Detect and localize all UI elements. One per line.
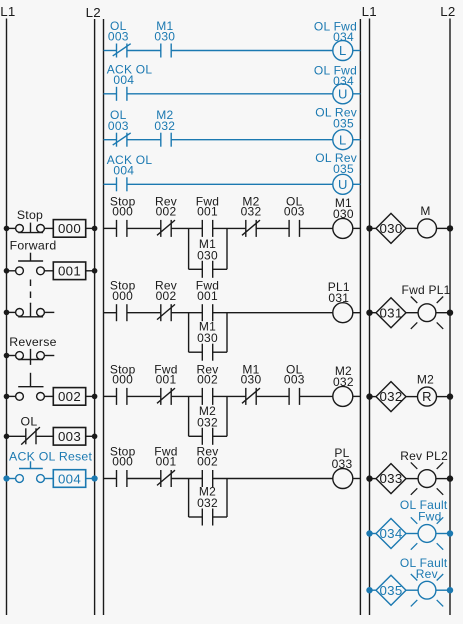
contact ACK OL 004 (NO) rung B2 (107, 62, 153, 101)
mechanical link Forward (dashed) (30, 280, 32, 305)
svg-text:001: 001 (197, 205, 218, 219)
output address 031 diamond and pilot light Fwd PL1 (366, 283, 453, 329)
svg-text:030: 030 (241, 373, 262, 387)
svg-text:L2: L2 (440, 4, 455, 19)
contact OL 003 (NC) rung B3 (108, 108, 131, 147)
rail L1 (output section left rail) (369, 19, 371, 616)
contact Fwd 001 (NC) rung 4 (154, 445, 177, 488)
contact M1 030 (NC) rung 3 (241, 362, 262, 405)
contact ACK OL 004 (NO) rung B4 (107, 153, 153, 192)
svg-text:032: 032 (380, 389, 403, 404)
junction dot Reverse row (4, 353, 10, 359)
contact M2 032 (NC) rung 1 (241, 194, 262, 237)
branch wires rung 2 (189, 313, 227, 353)
coil M1 030 rung 1 (333, 196, 354, 239)
svg-text:030: 030 (154, 30, 175, 44)
junction dots 004 row (blue) (3, 475, 97, 481)
svg-text:035: 035 (333, 162, 354, 176)
svg-text:001: 001 (156, 373, 177, 387)
svg-text:000: 000 (112, 289, 133, 303)
svg-text:Forward: Forward (10, 239, 57, 253)
svg-text:M: M (420, 204, 430, 218)
contact Rev 002 (NC) rung 2 (155, 279, 177, 322)
branch wires rung 3 (189, 396, 227, 436)
pushbutton Forward linked contact (NC, stub) (7, 303, 55, 317)
wire rung 1 (104, 227, 361, 229)
svg-text:Reverse: Reverse (9, 335, 57, 349)
svg-text:032: 032 (241, 205, 262, 219)
output address 034 diamond and pilot light OL Fault Fwd (blue) (366, 498, 453, 550)
svg-text:U: U (338, 86, 348, 101)
svg-text:031: 031 (380, 305, 403, 320)
rail L2 (output section right rail) (449, 19, 451, 616)
svg-text:000: 000 (112, 373, 133, 387)
svg-text:M2: M2 (417, 372, 434, 386)
rail ladder left (103, 19, 105, 615)
svg-text:032: 032 (197, 496, 218, 510)
wire rung 4 (104, 478, 361, 480)
svg-text:034: 034 (380, 526, 403, 541)
output address 033 diamond and pilot light Rev PL2 (366, 449, 453, 495)
wire rung B4 (104, 183, 361, 185)
svg-text:003: 003 (284, 205, 305, 219)
svg-text:003: 003 (58, 429, 81, 444)
contact M2 032 (NO) branch rung 4 (197, 485, 218, 526)
contact Fwd 001 (NO) rung 1 (196, 194, 219, 237)
svg-text:000: 000 (112, 205, 133, 219)
branch wires rung 4 (189, 479, 227, 518)
input box 000 (4, 226, 98, 232)
svg-text:002: 002 (197, 373, 218, 387)
pushbutton Forward (NO) input 001 (7, 239, 95, 280)
rail ladder right (359, 19, 361, 615)
label L2 left (86, 5, 101, 20)
coil U OL Fwd 034 rung B2 (314, 63, 357, 104)
svg-text:032: 032 (197, 415, 218, 429)
contact M1 030 (NO) rung B1 (154, 19, 175, 58)
svg-text:001: 001 (197, 289, 218, 303)
svg-text:000: 000 (58, 221, 81, 236)
contact Fwd 001 (NC) rung 3 (154, 362, 177, 405)
svg-text:002: 002 (156, 205, 177, 219)
coil U OL Rev 035 rung B4 (315, 151, 357, 194)
contact Rev 002 (NO) rung 4 (196, 445, 218, 488)
contact Rev 002 (NO) rung 3 (196, 362, 218, 405)
coil PL 033 rung 4 (332, 446, 353, 489)
svg-text:Fwd PL1: Fwd PL1 (401, 283, 450, 297)
svg-text:034: 034 (333, 30, 354, 44)
svg-text:003: 003 (284, 373, 305, 387)
wire rung B1 (104, 50, 361, 52)
label L2 right (440, 4, 455, 19)
contact M1 030 (NO) seal-in branch rung 1 (197, 237, 218, 278)
pushbutton ACK OL Reset (NO) input 004 (7, 449, 95, 487)
contact Fwd 001 (NO) rung 2 (196, 279, 219, 322)
svg-text:032: 032 (333, 375, 354, 389)
contact OL 003 (NO) rung 1 (284, 194, 305, 237)
svg-text:Fwd: Fwd (418, 509, 441, 523)
svg-text:033: 033 (380, 471, 403, 486)
contact Rev 002 (NC) rung 1 (155, 194, 177, 237)
wire rung 2 (104, 312, 361, 314)
svg-text:L1: L1 (0, 4, 15, 19)
svg-text:033: 033 (332, 457, 353, 471)
svg-text:L: L (339, 43, 346, 58)
svg-text:R: R (422, 389, 432, 404)
svg-text:001: 001 (156, 455, 177, 469)
label L1 right (362, 4, 377, 19)
svg-text:002: 002 (197, 455, 218, 469)
contact OL 003 (NO) rung 3 (284, 362, 305, 405)
svg-text:030: 030 (197, 248, 218, 262)
svg-text:Stop: Stop (17, 208, 43, 222)
svg-text:Rev: Rev (416, 567, 438, 581)
svg-text:030: 030 (380, 221, 403, 236)
contact M1 030 (NO) branch rung 2 (197, 320, 218, 361)
svg-text:U: U (338, 177, 348, 192)
svg-text:031: 031 (328, 291, 349, 305)
wire rung B2 (104, 93, 361, 95)
rail L1 (left power rail) (6, 19, 8, 616)
pushbutton Reverse linked contact (NO) input 002 (7, 373, 95, 405)
branch wires rung 1 (189, 228, 227, 269)
coil L OL Rev 035 rung B3 (315, 106, 357, 150)
contact M2 032 (NO) rung B3 (154, 108, 175, 147)
svg-text:034: 034 (333, 74, 354, 88)
pushbutton Reverse (NC, stub) (7, 335, 57, 365)
junction dots 003 row (4, 434, 98, 440)
rail L2 (input section right rail) (94, 19, 96, 615)
contact Stop 000 (NO) rung 1 (110, 194, 136, 237)
contact Stop 000 (NO) rung 4 (110, 445, 136, 488)
svg-text:003: 003 (108, 119, 129, 133)
svg-text:032: 032 (154, 119, 175, 133)
svg-text:000: 000 (112, 455, 133, 469)
svg-text:002: 002 (156, 289, 177, 303)
label L1 left (0, 4, 15, 19)
coil M2 032 rung 3 (333, 364, 354, 407)
svg-text:030: 030 (197, 331, 218, 345)
svg-text:L1: L1 (362, 4, 377, 19)
svg-text:L: L (339, 132, 346, 147)
pushbutton Stop (NC) input 000 (7, 208, 95, 237)
junction dots 002 row (4, 394, 98, 400)
svg-text:003: 003 (108, 30, 129, 44)
svg-text:001: 001 (58, 264, 81, 279)
svg-text:004: 004 (58, 471, 81, 486)
coil PL1 031 rung 2 (328, 280, 353, 323)
wire rung 3 (104, 395, 361, 397)
svg-text:002: 002 (58, 389, 81, 404)
coil L OL Fwd 034 rung B1 (314, 19, 357, 60)
contact Stop 000 (NO) rung 2 (110, 279, 136, 322)
svg-text:OL: OL (21, 414, 38, 428)
output address 032 diamond and coil M2 R (366, 372, 453, 411)
wire rung B3 (104, 139, 361, 141)
junction dot stub row 1 (4, 310, 10, 316)
contact OL 003 (NC) rung B1 (108, 19, 131, 58)
svg-text:Rev PL2: Rev PL2 (400, 449, 448, 463)
output address 035 diamond and pilot light OL Fault Rev (blue) (366, 556, 453, 607)
svg-text:030: 030 (333, 207, 354, 221)
contact Stop 000 (NO) rung 3 (110, 362, 136, 405)
svg-text:004: 004 (113, 73, 134, 87)
contact OL (NC) input 003 (7, 414, 95, 445)
svg-text:ACK OL Reset: ACK OL Reset (9, 449, 93, 463)
svg-text:035: 035 (333, 117, 354, 131)
contact M2 032 (NO) seal-in branch rung 3 (197, 404, 218, 445)
junction dots Forward row (4, 268, 98, 274)
svg-text:004: 004 (113, 164, 134, 178)
svg-text:035: 035 (380, 583, 403, 598)
output address 030 diamond and motor starter coil M (366, 204, 453, 244)
svg-text:L2: L2 (86, 5, 101, 20)
